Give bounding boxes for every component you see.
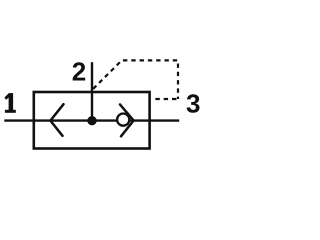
pilot line (dashed) bottom leg toward valve body xyxy=(154,98,176,100)
flow arrow pointing left xyxy=(50,104,63,136)
check valve ball xyxy=(117,114,129,126)
wire: main horizontal flow line port 1 to port 3 xyxy=(4,119,179,121)
svg-text:2: 2 xyxy=(72,56,86,86)
node junction dot xyxy=(87,116,96,125)
pilot line (dashed) from port 2 riser to port 3 side xyxy=(93,60,178,99)
svg-text:3: 3 xyxy=(186,88,200,118)
port label 1 (digit with foot serif) xyxy=(4,93,15,113)
valve body box xyxy=(34,92,150,149)
wire: port 2 riser xyxy=(91,62,93,121)
check valve seat xyxy=(120,105,134,137)
